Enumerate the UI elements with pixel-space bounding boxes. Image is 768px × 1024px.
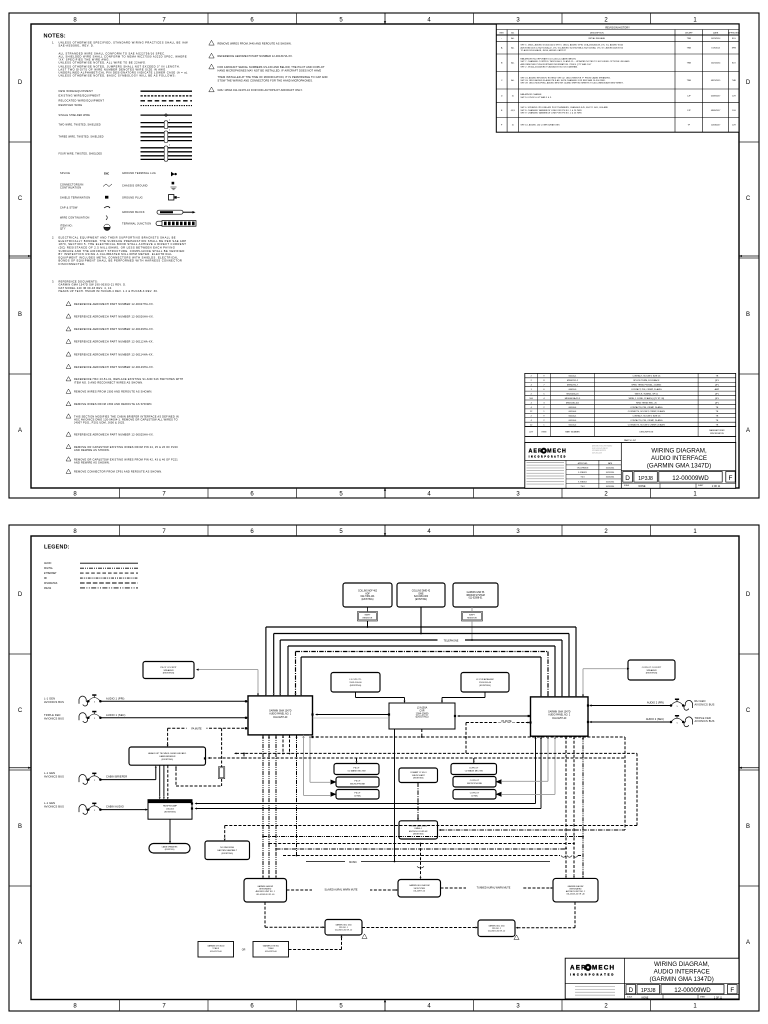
wire rail R2 dashed: [269, 843, 574, 845]
svg-text:7: 7: [162, 529, 166, 535]
svg-text:TCAS II: TCAS II: [212, 947, 219, 950]
svg-text:SHEET: SHEET: [698, 485, 703, 487]
svg-text:J400? P101, P201 UDM, J600 & J: J400? P101, P201 UDM, J600 & J625.: [74, 421, 125, 425]
svg-text:(EXISTING): (EXISTING): [413, 778, 424, 780]
svg-text:C: C: [18, 196, 23, 202]
GMA2 bottom pin arrows: [535, 737, 537, 739]
wire GMA1 to pilot microphone: [309, 735, 311, 782]
svg-text:SHT 03: J8301 ADDED FLAGNOTE 8: SHT 03: J8301 ADDED FLAGNOTE 8 AS. SHT8 …: [521, 79, 607, 82]
svg-text:B: B: [746, 312, 750, 318]
svg-text:011-01105-20 OR -40: 011-01105-20 OR -40: [256, 894, 274, 896]
wire rail R4 dashed with hop: [283, 855, 560, 857]
svg-text:(EXISTING): (EXISTING): [162, 759, 174, 761]
svg-text:8: 8: [73, 529, 77, 535]
flag note left 7: [66, 339, 71, 343]
parts list caption: [525, 437, 736, 443]
svg-text:AND REWIRE AS SHOWN.: AND REWIRE AS SHOWN.: [74, 460, 110, 464]
svg-text:MS25036-102: MS25036-102: [566, 402, 580, 404]
svg-text:AUDIO 1 (PRI): AUDIO 1 (PRI): [106, 696, 124, 700]
svg-text:SLAVED AURAL WARN MUTE: SLAVED AURAL WARN MUTE: [325, 888, 358, 891]
svg-text:(EXISTING): (EXISTING): [479, 685, 491, 687]
svg-text:2 OF 11: 2 OF 11: [714, 997, 723, 999]
svg-text:REMOVE WIRES FROM J300 AND RER: REMOVE WIRES FROM J300 AND REROUTE AS SH…: [74, 390, 153, 394]
wire HSCAB to PA amp: [159, 765, 161, 797]
flag note left 6: [66, 327, 71, 331]
wire audio bus L2: [274, 633, 569, 635]
svg-text:05/09/2017: 05/09/2017: [711, 96, 720, 98]
svg-text:AUDIO 2 (SEC): AUDIO 2 (SEC): [646, 717, 664, 721]
wire rail R3 dash-dot: [276, 848, 566, 850]
svg-text:5: 5: [677, 722, 679, 724]
flag note left 15: [66, 444, 71, 448]
svg-text:66103-4: 66103-4: [569, 420, 577, 422]
audio panel U2 GARMIN GMA 1347D NO.2: [531, 697, 589, 736]
svg-text:SJG: SJG: [732, 63, 736, 65]
wire GDU1 to GDU2: [362, 927, 476, 929]
svg-text:4: 4: [427, 1004, 431, 1010]
block COPILOT MICROPHONE: [453, 777, 496, 788]
wire GSR56 drop: [471, 607, 473, 612]
GMA1 bottom pin arrows: [262, 735, 264, 737]
svg-text:5: 5: [339, 18, 343, 24]
svg-text:CONTACT, SOCKET, SIZE 16: CONTACT, SOCKET, SIZE 16: [632, 375, 661, 378]
flag note left 17: [66, 469, 71, 473]
svg-text:SJG: SJG: [732, 38, 736, 40]
svg-text:FASTEN SEATBELT: FASTEN SEATBELT: [217, 849, 237, 852]
svg-text:66018-6: 66018-6: [569, 389, 577, 391]
block L3 A100A CVR: [389, 703, 455, 729]
svg-text:I N C O R P O R A T E D: I N C O R P O R A T E D: [529, 455, 566, 458]
svg-text:T.W.JOHNSON: T.W.JOHNSON: [577, 467, 589, 469]
svg-text:1 OF 11: 1 OF 11: [712, 485, 721, 488]
svg-text:D: D: [18, 592, 23, 598]
svg-text:REFERENCE AEROMECH PART NUMBER: REFERENCE AEROMECH PART NUMBER 12-00129H…: [74, 365, 154, 369]
wire TCAS to GDU1: [289, 949, 342, 951]
wire GMA2 to copilot o2 mic: [554, 736, 556, 794]
wire GIA1 to GDU1: [264, 902, 266, 927]
svg-text:8: 8: [73, 1004, 77, 1010]
svg-text:REMOVED WIRE: REMOVED WIRE: [59, 103, 83, 107]
block PILOT O2 MASK MIC SW: [334, 764, 379, 775]
svg-text:D: D: [625, 475, 630, 482]
svg-text:STOW THE WIRING AND CONNECTORS: STOW THE WIRING AND CONNECTORS FOR THE H…: [218, 79, 314, 83]
svg-text:AUDIO 2 (PRI): AUDIO 2 (PRI): [647, 701, 664, 705]
svg-text:WIRE CONTINUATION: WIRE CONTINUATION: [60, 216, 89, 219]
wire rail no-smoking loop: [225, 825, 637, 827]
svg-text:DATE: DATE: [713, 31, 719, 34]
svg-text:(EXISTING): (EXISTING): [646, 673, 658, 675]
wire GDL top drop: [420, 844, 422, 877]
svg-text:REFERENCE AEROMECH PART NUMBER: REFERENCE AEROMECH PART NUMBER 12-00114H…: [74, 352, 154, 356]
svg-text:L3 CVR CTL: L3 CVR CTL: [349, 679, 362, 681]
svg-text:011-01257-20: 011-01257-20: [552, 718, 567, 720]
svg-text:GARMIN GSR 56: GARMIN GSR 56: [467, 591, 485, 594]
svg-text:SAE-AS50881, REV. D.: SAE-AS50881, REV. D.: [59, 44, 95, 48]
svg-text:3026 N FLIGHTLINE DR: 3026 N FLIGHTLINE DR: [592, 448, 608, 450]
svg-text:RESISTOR: RESISTOR: [363, 617, 373, 619]
edge pin squares: [311, 713, 313, 715]
wire audio bus L1: [266, 626, 576, 628]
svg-text:CJH: CJH: [732, 96, 736, 98]
svg-text:O2 MASK MIC SW: O2 MASK MIC SW: [465, 769, 484, 772]
svg-text:(EXISTING): (EXISTING): [361, 599, 373, 601]
svg-text:COPILOT: COPILOT: [469, 767, 479, 769]
svg-text:10/23/2014: 10/23/2014: [606, 467, 615, 469]
svg-text:SPLICE: SPLICE: [60, 172, 70, 175]
svg-text:A: A: [746, 428, 750, 434]
flag note left 14: [66, 432, 71, 436]
wire CVR CTL to A100A: [355, 692, 357, 697]
svg-text:HEADS UP TECH. HSCAB IM HUCAB-: HEADS UP TECH. HSCAB IM HUCAB-4 REV. 1.2…: [59, 289, 159, 293]
svg-text:011-01105-20 OR -40: 011-01105-20 OR -40: [566, 894, 584, 896]
svg-text:4,8,9: 4,8,9: [511, 110, 515, 112]
parts list table: [525, 373, 736, 426]
sheet2 small print: [575, 986, 615, 988]
wire audio bus L4: [288, 645, 555, 647]
resistor R1 swift: [358, 612, 378, 622]
wire DME drop: [420, 607, 422, 634]
block NO SMOKING FASTEN SEATBELT: [205, 841, 250, 860]
svg-text:CONTACT, SOCKET, SIZE 16: CONTACT, SOCKET, SIZE 16: [632, 415, 661, 418]
svg-text:CABIN AUDIO: CABIN AUDIO: [106, 805, 124, 809]
sheet2 outer border: [9, 525, 759, 1011]
svg-text:1P3J8: 1P3J8: [641, 988, 656, 994]
svg-text:THEM INSTALLED AT THE TIME OF: THEM INSTALLED AT THE TIME OF MODIFICATI…: [218, 75, 328, 79]
sheet1 zone ticks: [9, 13, 759, 498]
svg-text:AVIONICS UNIT NO. 1: AVIONICS UNIT NO. 1: [256, 890, 275, 893]
svg-text:1: 1: [693, 18, 697, 24]
flag note left 13: [66, 414, 71, 418]
svg-text:ANT/SCH COUPLER: ANT/SCH COUPLER: [409, 830, 428, 833]
svg-text:ALL: ALL: [511, 62, 514, 65]
block GARMIN GDL 69A XM: [398, 880, 441, 898]
wire A100A to GMA2: [458, 715, 531, 717]
sheet2 title block: [565, 958, 739, 999]
svg-text:F: F: [729, 475, 733, 482]
svg-text:GARMIN GIA 63W: GARMIN GIA 63W: [568, 885, 584, 888]
sheet2 fold marks: [384, 525, 386, 536]
audio amplifier PA SPKR AMP: [148, 800, 192, 820]
node TELEPHONE label: [438, 638, 466, 642]
svg-text:MECH: MECH: [592, 965, 615, 972]
svg-text:DIGITAL: DIGITAL: [44, 567, 54, 570]
flag note left 12: [66, 401, 71, 405]
avionics unit GIA1 GARMIN GIA 63W NO.1: [244, 879, 287, 903]
svg-text:PART NUMBER: PART NUMBER: [565, 431, 580, 434]
svg-text:011-01257-20: 011-01257-20: [273, 717, 288, 719]
wire GMA2 to copilot microphone: [547, 736, 549, 781]
wire rail R1 dash-dot-dot: [263, 836, 583, 838]
svg-text:D: D: [746, 80, 751, 86]
svg-text:10/23/2014: 10/23/2014: [606, 472, 615, 474]
svg-text:DME: DME: [419, 593, 424, 595]
svg-text:4: 4: [427, 529, 431, 535]
svg-text:PA SPKR AMP: PA SPKR AMP: [163, 805, 178, 808]
svg-text:C: C: [746, 708, 751, 714]
svg-text:CONTACTS, SOCKET, CRIMP, 20 AW: CONTACTS, SOCKET, CRIMP, 20 AWG: [628, 410, 666, 413]
svg-text:DISCONNECTED.: DISCONNECTED.: [59, 262, 86, 266]
audio panel U1 GARMIN GMA 1347D NO.1: [248, 696, 313, 735]
svg-text:DR APP: DR APP: [685, 31, 693, 34]
svg-text:3: 3: [516, 18, 520, 24]
svg-text:WIRING DIAGRAM,: WIRING DIAGRAM,: [654, 961, 710, 968]
block GARMIN GSR 56: [453, 583, 498, 607]
svg-text:AND REMOVED PUSH FURTHER INFOR: AND REMOVED PUSH FURTHER INFORMATION. IT…: [521, 63, 592, 66]
svg-text:FOUR WIRE, TWISTED, SHIELDED: FOUR WIRE, TWISTED, SHIELDED: [59, 154, 103, 156]
svg-text:INTEGRATED: INTEGRATED: [569, 888, 582, 891]
block COPILOT O2 MIC: [453, 790, 496, 800]
svg-text:ENC: ENC: [104, 173, 109, 176]
svg-text:C: C: [746, 196, 751, 202]
svg-text:QTY: QTY: [60, 228, 66, 231]
svg-text:LEGEND:: LEGEND:: [44, 545, 70, 551]
svg-text:VINYLR, TUBING, SP 61: VINYLR, TUBING, SP 61: [635, 393, 659, 395]
svg-text:ITEM NO. 5 AND RECONNECT WIRES: ITEM NO. 5 AND RECONNECT WIRES AS SHOWN.: [74, 380, 143, 384]
svg-text:5: 5: [339, 529, 343, 535]
svg-text:5: 5: [94, 718, 96, 720]
svg-text:(EXISTING): (EXISTING): [416, 715, 429, 718]
svg-text:ALL: ALL: [511, 47, 514, 50]
wire PA MUTE right: [466, 722, 528, 724]
svg-text:TWB: TWB: [687, 38, 692, 40]
svg-text:AER: AER: [529, 449, 543, 455]
svg-text:GROUND TERMINAL LUG: GROUND TERMINAL LUG: [122, 172, 156, 175]
svg-text:3: 3: [169, 130, 170, 132]
svg-text:TWB: TWB: [687, 63, 692, 65]
wire GMA2 to PA amp line1: [535, 736, 537, 803]
block PILOT O2 MIC: [336, 790, 379, 800]
flag note left 16: [66, 457, 71, 461]
svg-text:8: 8: [73, 492, 77, 498]
svg-text:FAA MINOR INCORPORATE DCO-031: FAA MINOR INCORPORATE DCO-0313-14 (AEROM…: [521, 57, 577, 60]
svg-text:GARMIN GIA 63W: GARMIN GIA 63W: [257, 885, 273, 888]
svg-text:TCAS I: TCAS I: [268, 947, 275, 950]
svg-text:AVIONICS BUS: AVIONICS BUS: [44, 774, 64, 778]
svg-text:OR: OR: [242, 949, 246, 952]
flag note left 10: [66, 377, 71, 381]
svg-text:2.: 2.: [52, 236, 54, 240]
svg-text:M39029/1-2: M39029/1-2: [567, 380, 579, 382]
approvals grid: [565, 460, 567, 488]
svg-text:TO AUDIO/50/G6A/J8, J8/G4, ADD: TO AUDIO/50/G6A/J8, J8/G4, ADDED CAP/P47: [521, 49, 566, 52]
svg-text:APPROVED: APPROVED: [728, 31, 740, 34]
svg-text:SPED TERM, PIGTAIL, 22 AWG: SPED TERM, PIGTAIL, 22 AWG: [631, 384, 661, 387]
wire GMA2 to PA amp line2: [540, 736, 542, 808]
wire loop right vertical 625: [624, 737, 626, 830]
svg-text:AMP: AMP: [715, 388, 720, 391]
flag note right 2: [209, 64, 214, 69]
svg-text:L-1 GEN: L-1 GEN: [44, 697, 55, 701]
svg-text:CHASSIS GROUND: CHASSIS GROUND: [122, 184, 148, 187]
svg-text:INTEGRATED: INTEGRATED: [259, 888, 272, 891]
wire rail GMA1 right dashed: [316, 736, 625, 738]
svg-text:011-03470-30 OR -10: 011-03470-30 OR -10: [488, 930, 505, 932]
svg-text:AVIONICS BUS: AVIONICS BUS: [695, 703, 715, 707]
svg-text:10/23/2014: 10/23/2014: [606, 477, 615, 479]
svg-text:CABIN BRIEFER: CABIN BRIEFER: [159, 755, 176, 758]
svg-text:08/09/2017: 08/09/2017: [711, 110, 720, 112]
wire relocated sample: [141, 100, 193, 102]
svg-text:S. STARCK: S. STARCK: [578, 471, 588, 474]
svg-text:REMOVE WIRES FROM J390 AND RER: REMOVE WIRES FROM J390 AND REROUTE AS SH…: [74, 402, 153, 406]
svg-text:5: 5: [339, 1004, 343, 1010]
wire SLAVED AURAL WARN MUTE: [287, 889, 396, 891]
svg-text:1/19/2014: 1/19/2014: [711, 48, 719, 50]
svg-text:GROUND BLOCK: GROUND BLOCK: [122, 211, 145, 214]
svg-text:5: 5: [94, 810, 96, 812]
svg-text:A: A: [18, 940, 22, 946]
svg-text:WIRE, 1 COND, 22 AWG (QTY FT.: WIRE, 1 COND, 22 AWG (QTY FT. IN): [629, 397, 665, 400]
svg-text:GARMIN GMA 1347D: GARMIN GMA 1347D: [548, 711, 571, 714]
svg-text:REFERENCE AEROMECH PART NUMBER: REFERENCE AEROMECH PART NUMBER 12-00112H…: [74, 340, 154, 344]
svg-text:(EXISTING): (EXISTING): [164, 812, 176, 814]
block L3 CVR APBA MIC: [461, 673, 509, 693]
svg-text:SINGLE SHIELDED WIRE: SINGLE SHIELDED WIRE: [59, 115, 91, 117]
svg-text:XM SYSTEM: XM SYSTEM: [414, 888, 426, 890]
svg-text:AER: AER: [570, 965, 587, 972]
svg-text:TWB: TWB: [687, 80, 692, 82]
svg-text:CJH: CJH: [732, 110, 736, 112]
wire GIA2 to GDU2: [574, 902, 576, 928]
wire TUNED AURAL WARN MUTE: [441, 887, 551, 889]
svg-text:SPEAKER: SPEAKER: [163, 669, 174, 672]
svg-text:TUNNED AURAL WARN MUTE: TUNNED AURAL WARN MUTE: [477, 886, 511, 889]
wire rail B briefer link: [209, 757, 244, 759]
svg-text:6: 6: [250, 18, 254, 24]
svg-text:FOR AIRCRAFT SERIAL NUMBERS US: FOR AIRCRAFT SERIAL NUMBERS US-160 AND B…: [218, 65, 325, 69]
svg-text:2: 2: [604, 492, 608, 498]
svg-text:TRIPLE FED: TRIPLE FED: [44, 713, 61, 717]
svg-text:COLLINS ADF 462: COLLINS ADF 462: [358, 589, 378, 592]
wire COMANT to DORNE: [417, 783, 419, 819]
wire GMA1 to GIA1 bundle: [262, 735, 264, 876]
svg-text:AUDIO PANEL NO. 2: AUDIO PANEL NO. 2: [548, 714, 571, 717]
title block small print: [527, 462, 565, 464]
block COPILOT O2 MASK MIC SW: [451, 764, 497, 775]
company logo box: [525, 459, 622, 461]
svg-text:66103-4: 66103-4: [569, 407, 577, 409]
svg-text:ADF: ADF: [365, 592, 370, 595]
svg-text:4: 4: [169, 145, 170, 147]
svg-text:240-002: 240-002: [166, 809, 175, 811]
svg-text:C: C: [18, 708, 23, 714]
avionics unit GIA2 GARMIN GIA 63W NO.2: [553, 878, 598, 902]
svg-text:(EXISTING): (EXISTING): [165, 849, 175, 851]
wire audio bus L6: [301, 656, 541, 658]
svg-text:B: B: [18, 824, 22, 830]
svg-text:12-00009WD: 12-00009WD: [674, 987, 711, 994]
svg-text:GROUND PLUG: GROUND PLUG: [122, 197, 143, 200]
svg-text:SPM: SPM: [732, 48, 737, 50]
wire rail A upper: [236, 752, 637, 754]
size cage number row: [621, 483, 735, 485]
svg-text:S. STARCK: S. STARCK: [578, 480, 588, 483]
display GDU1 GARMIN GDU 1050 PFD NO.1: [325, 920, 362, 936]
svg-text:011-03470-30 OR -10: 011-03470-30 OR -10: [335, 929, 352, 931]
flag note left 8: [66, 352, 71, 356]
svg-text:AVIONICS BUS: AVIONICS BUS: [44, 700, 64, 704]
svg-text:ITEM: ITEM: [542, 432, 547, 434]
svg-text:1503-100-00: 1503-100-00: [349, 682, 362, 684]
sheet2 zone ticks: [9, 525, 759, 1011]
svg-text:COMANT CI 105-3: COMANT CI 105-3: [410, 771, 426, 774]
svg-text:SPLICE TERM, FOLDBACK: SPLICE TERM, FOLDBACK: [633, 379, 660, 382]
svg-text:1503-200-40: 1503-200-40: [479, 682, 492, 684]
block DORNE MARGOLIN COUPLER: [399, 821, 438, 839]
wire PA amp to cabin speakers: [169, 819, 171, 841]
block COMANT VHF ANT: [399, 768, 438, 783]
block COPILOT COCKPIT SPEAKER: [628, 660, 675, 680]
svg-text:011-02871-00: 011-02871-00: [265, 951, 277, 953]
svg-text:SHEET: SHEET: [700, 997, 705, 999]
svg-text:3.: 3.: [52, 279, 54, 283]
svg-text:10/21/2014: 10/21/2014: [711, 63, 720, 65]
svg-text:RF: RF: [44, 578, 48, 580]
svg-text:MANUFACTURER: MANUFACTURER: [709, 429, 725, 432]
svg-text:ETHERNET: ETHERNET: [44, 573, 57, 575]
svg-text:10: 10: [512, 96, 514, 98]
svg-text:D: D: [746, 592, 751, 598]
sheet1 outer border: [9, 13, 759, 498]
svg-text:5: 5: [339, 492, 343, 498]
svg-text:FAA MINOR CHANGE: FAA MINOR CHANGE: [521, 93, 543, 96]
svg-text:3: 3: [516, 529, 520, 535]
svg-text:(EXISTING): (EXISTING): [413, 834, 424, 836]
flag note left 9: [66, 364, 71, 368]
wire audio bus L3: [280, 639, 562, 641]
svg-text:AUDIO PANEL NO. 1: AUDIO PANEL NO. 1: [269, 713, 292, 716]
svg-text:1: 1: [693, 1004, 697, 1010]
wire rail B lower o2 mask: [244, 757, 625, 759]
svg-text:08/21/2015: 08/21/2015: [711, 80, 720, 82]
wire audio bus L5: [296, 651, 549, 653]
svg-text:10/23/2014: 10/23/2014: [606, 486, 615, 488]
svg-text:O2 MASK MIC SW: O2 MASK MIC SW: [347, 769, 366, 772]
svg-text:O2 MIC: O2 MIC: [471, 796, 479, 798]
svg-text:MECH: MECH: [547, 449, 567, 455]
svg-text:MS25036-23: MS25036-23: [566, 393, 579, 395]
svg-text:GARMIN GMA 1347D: GARMIN GMA 1347D: [269, 710, 292, 713]
svg-text:TWB: TWB: [687, 48, 692, 50]
svg-text:SHT 2: ZN 4A-J41 ADDED TCAS AU: SHT 2: ZN 4A-J41 ADDED TCAS AUDIO BLOCK …: [521, 66, 579, 69]
svg-text:PA MUTE: PA MUTE: [501, 720, 512, 723]
sheet2 inner border: [31, 536, 739, 1000]
svg-text:CONTINUATION: CONTINUATION: [60, 186, 81, 189]
svg-text:HAND MICROPHONES MAY NOT BE IN: HAND MICROPHONES MAY NOT BE INSTALLED. I…: [218, 69, 322, 73]
sheet2 company logo box: [565, 982, 624, 984]
svg-text:1: 1: [693, 492, 697, 498]
block COLLINS ADF 462: [343, 583, 392, 607]
svg-text:DESCRIPTION: DESCRIPTION: [640, 432, 654, 434]
svg-text:UNLESS OTHERWISE NOTED, ALL WI: UNLESS OTHERWISE NOTED, ALL WIRE TO BE 2…: [59, 61, 147, 65]
svg-text:I N C O R P O R A T E D: I N C O R P O R A T E D: [570, 972, 614, 976]
svg-text:PILOT: PILOT: [354, 780, 361, 782]
svg-text:2: 2: [94, 780, 96, 782]
svg-text:REFERENCE AEROMECH PART NUMBER: REFERENCE AEROMECH PART NUMBER 12-00026H…: [74, 314, 154, 318]
svg-text:F: F: [730, 987, 734, 994]
sheet2 number row: [625, 982, 739, 984]
svg-text:622-6263-003: 622-6263-003: [414, 596, 429, 598]
svg-text:REFERENCE AEROMECH PART NUMBER: REFERENCE AEROMECH PART NUMBER 12-00025H…: [74, 433, 154, 437]
svg-text:L-1 GEN: L-1 GEN: [44, 801, 55, 805]
svg-text:66104-4: 66104-4: [569, 425, 577, 427]
svg-text:SHT 01: ADDED REVISION 'EXTEND: SHT 01: ADDED REVISION 'EXTEND' SHT 02: …: [521, 76, 611, 79]
svg-text:3: 3: [516, 1004, 520, 1010]
display GDU2 GARMIN GDU 1050 PFD NO.2: [478, 920, 515, 937]
svg-text:NONE: NONE: [639, 485, 646, 488]
svg-text:CONTACTS, PIN, CRIMP, 20 AWG: CONTACTS, PIN, CRIMP, 20 AWG: [630, 419, 663, 422]
svg-text:7: 7: [162, 1004, 166, 1010]
